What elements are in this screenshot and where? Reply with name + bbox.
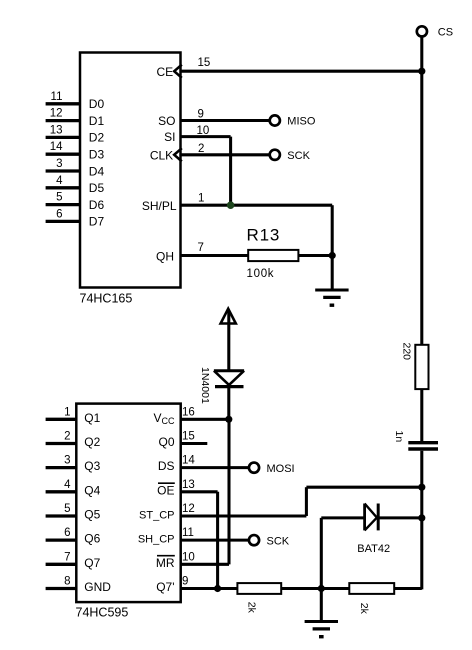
svg-text:D1: D1 [89, 114, 105, 128]
pin 7 stub Q7 [46, 563, 77, 566]
svg-text:D3: D3 [89, 148, 105, 162]
pin 7 wire QH to R13 [181, 254, 249, 257]
svg-text:SH_CP: SH_CP [138, 534, 175, 546]
svg-text:220: 220 [400, 343, 412, 361]
CE input arrow [174, 65, 182, 78]
wire BAT42 to rail [378, 516, 422, 519]
junction SI/SH_PL (green) [227, 201, 235, 209]
svg-text:R13: R13 [247, 225, 281, 244]
svg-text:11: 11 [182, 527, 194, 539]
connector MISO [270, 115, 280, 125]
svg-text:14: 14 [50, 141, 63, 153]
wire SH/PL corner down to R13 [331, 205, 334, 255]
pin 14 stub D3 [46, 153, 80, 156]
svg-text:GND: GND [84, 580, 111, 594]
connector SCK (bottom) [249, 535, 259, 545]
svg-text:13: 13 [182, 479, 195, 491]
pin 15 stub Q0 [181, 442, 208, 445]
pin 2 wire CLK to SCK [181, 153, 270, 156]
svg-text:OE: OE [157, 483, 174, 497]
pin 3 stub D4 [46, 169, 80, 172]
wire left 2k to junction [281, 587, 349, 590]
junction rail/BAT42 [418, 514, 425, 521]
wire 220 to cap [420, 389, 423, 441]
connector CS [417, 26, 427, 36]
svg-text:74HC165: 74HC165 [80, 292, 133, 306]
svg-text:10: 10 [182, 551, 195, 563]
svg-text:11: 11 [51, 91, 63, 103]
svg-text:6: 6 [56, 208, 62, 220]
junction 2k/2k/BAT42/gnd [318, 585, 325, 592]
svg-text:Q6: Q6 [84, 532, 100, 546]
ground bottom [320, 588, 323, 621]
svg-text:D7: D7 [89, 215, 105, 229]
junction OE/Q7' [214, 585, 221, 592]
svg-text:2k: 2k [245, 602, 257, 614]
diode D2 BAT42 (pointing right) [363, 504, 366, 531]
junction VCC pin16 [225, 416, 232, 423]
svg-text:CLK: CLK [150, 148, 173, 162]
supply arrow (open triangle up) [221, 309, 236, 324]
svg-text:SCK: SCK [267, 535, 290, 547]
pin 15 wire CE to CS rail [181, 70, 422, 73]
wire OE down to Q7 row [216, 492, 219, 589]
CLK input arrow [174, 148, 182, 161]
connector MOSI [249, 463, 259, 473]
wire CS down [420, 37, 423, 345]
svg-text:9: 9 [198, 109, 204, 121]
connector SCK (top) [270, 150, 280, 160]
wire R13 to junction [298, 254, 332, 257]
svg-text:SI: SI [164, 130, 175, 144]
pin 3 stub Q3 [46, 466, 77, 469]
wire BAT42 row left corner [321, 516, 364, 519]
svg-text:Q4: Q4 [84, 483, 100, 497]
junction CS/CE [418, 68, 425, 75]
svg-text:9: 9 [182, 575, 188, 587]
svg-text:SH/PL: SH/PL [142, 199, 177, 213]
svg-text:Q7': Q7' [156, 580, 174, 594]
pin 5 stub D6 [46, 203, 80, 206]
resistor 220 (vertical) [415, 345, 428, 389]
svg-text:D6: D6 [89, 198, 105, 212]
pin 11 stub D0 [46, 102, 80, 105]
wire supply arrow to diode [227, 311, 230, 371]
resistor R_a 2k (left) [237, 583, 281, 594]
svg-text:7: 7 [64, 551, 70, 563]
svg-text:2: 2 [198, 143, 204, 155]
svg-text:15: 15 [182, 430, 195, 442]
pin 14 wire DS to MOSI [181, 466, 249, 469]
pin 4 stub Q4 [46, 490, 77, 493]
pin 10 wire MR [181, 563, 229, 566]
svg-text:MISO: MISO [287, 116, 316, 128]
capacitor 1n [408, 441, 438, 444]
svg-text:CS: CS [438, 26, 453, 38]
svg-text:Q3: Q3 [84, 459, 100, 473]
svg-text:ST_CP: ST_CP [139, 509, 174, 521]
svg-text:Q7: Q7 [84, 556, 100, 570]
diode D1 1N4001 (pointing down) [214, 369, 244, 372]
pin 4 stub D5 [46, 186, 80, 189]
svg-text:CE: CE [157, 65, 174, 79]
pin 6 stub D7 [46, 220, 80, 223]
svg-text:13: 13 [50, 124, 63, 136]
wire junction down to ground [331, 256, 334, 291]
svg-text:6: 6 [64, 527, 70, 539]
svg-text:D0: D0 [89, 97, 105, 111]
wire VCC junction up to diode [227, 388, 230, 419]
svg-text:7: 7 [198, 242, 204, 254]
svg-text:2k: 2k [358, 603, 370, 615]
svg-text:3: 3 [64, 455, 70, 467]
pin 1 wire SH/PL [181, 204, 333, 207]
svg-text:MR: MR [156, 556, 175, 570]
pin 8 stub GND [46, 587, 77, 590]
svg-text:1n: 1n [393, 431, 405, 443]
svg-text:5: 5 [56, 192, 62, 204]
wire cap down rail [420, 451, 423, 590]
wire ST_CP up [305, 487, 308, 516]
wire ST_CP right to rail [306, 486, 421, 489]
wire MR up to VCC rail [227, 419, 230, 564]
pin 11 wire SH_CP to SCK [181, 539, 249, 542]
svg-text:BAT42: BAT42 [357, 543, 390, 555]
svg-text:D5: D5 [89, 181, 105, 195]
svg-text:SO: SO [158, 114, 175, 128]
svg-text:10: 10 [197, 125, 210, 137]
IC U1 74HC165 body [80, 53, 181, 288]
pin 6 stub Q6 [46, 539, 77, 542]
svg-text:Q1: Q1 [84, 411, 100, 425]
pin 12 stub D1 [46, 119, 80, 122]
wire SI down to SH/PL [229, 137, 232, 206]
pin 13 stub D2 [46, 136, 80, 139]
svg-text:16: 16 [182, 406, 195, 418]
pin 2 stub Q2 [46, 442, 77, 445]
svg-text:D2: D2 [89, 131, 105, 145]
svg-text:1N4001: 1N4001 [199, 367, 211, 404]
svg-text:5: 5 [64, 503, 70, 515]
wire right 2k to rail [394, 587, 422, 590]
svg-text:Q2: Q2 [84, 435, 100, 449]
junction R13/ground [329, 252, 336, 259]
svg-text:2: 2 [64, 430, 70, 442]
pin 9 wire Q7' [181, 587, 238, 590]
pin 5 stub Q5 [46, 514, 77, 517]
svg-text:74HC595: 74HC595 [76, 606, 129, 620]
svg-text:4: 4 [56, 175, 63, 187]
svg-text:Q5: Q5 [84, 507, 100, 521]
pin 12 wire ST_CP [181, 514, 307, 517]
svg-text:15: 15 [198, 57, 211, 69]
pin 1 stub Q1 [46, 418, 77, 421]
svg-text:8: 8 [64, 575, 70, 587]
IC U2 74HC595 body [76, 404, 180, 602]
ground below R13 [315, 289, 348, 292]
wire BAT42 left down to 2k junction [320, 518, 323, 589]
svg-text:Q0: Q0 [158, 435, 174, 449]
pin 10 wire SI [181, 135, 231, 138]
svg-text:100k: 100k [247, 268, 275, 280]
pin 16 wire VCC [181, 418, 229, 421]
svg-text:3: 3 [56, 158, 62, 170]
pin 9 wire SO to MISO [181, 119, 270, 122]
svg-text:MOSI: MOSI [267, 463, 295, 475]
svg-text:12: 12 [182, 503, 195, 515]
svg-text:QH: QH [156, 249, 174, 263]
junction rail/ST_CP [418, 484, 425, 491]
resistor R_b 2k (right) [349, 583, 394, 594]
svg-text:14: 14 [182, 455, 195, 467]
resistor R13 [248, 250, 298, 261]
pin 13 wire OE [181, 490, 218, 493]
svg-text:SCK: SCK [287, 150, 310, 162]
svg-text:4: 4 [64, 479, 71, 491]
svg-text:1: 1 [198, 193, 204, 205]
svg-text:DS: DS [158, 459, 175, 473]
svg-text:12: 12 [50, 108, 63, 120]
svg-text:D4: D4 [89, 164, 105, 178]
svg-text:1: 1 [64, 406, 70, 418]
